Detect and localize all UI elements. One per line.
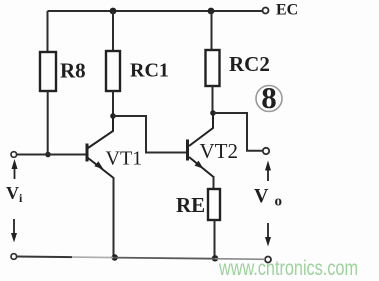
junction VT2 collector node [210, 110, 216, 116]
arrow Vo lower [265, 223, 271, 247]
transistor VT2 [188, 113, 214, 177]
resistor R8 [40, 52, 56, 91]
svg-text:RE: RE [176, 193, 205, 217]
junction RE rail [212, 255, 218, 261]
junction base node [45, 152, 51, 158]
designator circled 8 [256, 80, 282, 115]
wire R8 branch bottom [47, 91, 49, 155]
terminal Vi minus [11, 254, 17, 260]
wire RC2 branch top [211, 11, 213, 50]
arrow Vi lower [11, 219, 17, 243]
wire top supply rail [48, 10, 263, 12]
wire VT2 collector to output [213, 113, 263, 151]
terminal EC [263, 8, 269, 14]
wire VT1 emitter to ground rail [113, 177, 115, 258]
wire coupling VT1 collector to VT2 base [113, 116, 186, 153]
wire RC2 branch bottom [212, 86, 214, 113]
svg-text:VT1: VT1 [106, 148, 143, 170]
svg-text:R8: R8 [60, 59, 86, 83]
wire input to VT1 base [17, 154, 87, 156]
wire RC1 branch bottom [112, 91, 114, 116]
resistor RC1 [106, 51, 120, 91]
arrow Vo upper [265, 161, 271, 182]
resistor RE [208, 189, 220, 220]
wire RC1 branch top [112, 11, 114, 51]
svg-text:8: 8 [261, 80, 277, 115]
wire bottom ground rail [17, 257, 266, 260]
wire VT2 emitter to RE [213, 176, 215, 189]
wire RE to ground rail [214, 220, 216, 258]
svg-text:RC1: RC1 [130, 60, 169, 82]
arrow Vi upper [12, 159, 18, 179]
svg-text:www.cntronics.com: www.cntronics.com [218, 257, 358, 280]
junction VT1 collector node [110, 113, 116, 119]
junction RC2 top [208, 8, 215, 15]
terminal Vo plus [263, 148, 269, 154]
transistor VT1 [87, 116, 113, 178]
junction RC1 top [110, 8, 117, 15]
junction VT1 emitter rail [112, 254, 118, 260]
wire R8 branch top [47, 11, 49, 52]
svg-text:RC2: RC2 [229, 52, 270, 76]
svg-text:VT2: VT2 [200, 139, 239, 163]
terminal Vi plus [11, 152, 17, 158]
terminal Vo minus [265, 257, 271, 263]
svg-text:EC: EC [276, 2, 298, 19]
resistor RC2 [206, 50, 220, 86]
